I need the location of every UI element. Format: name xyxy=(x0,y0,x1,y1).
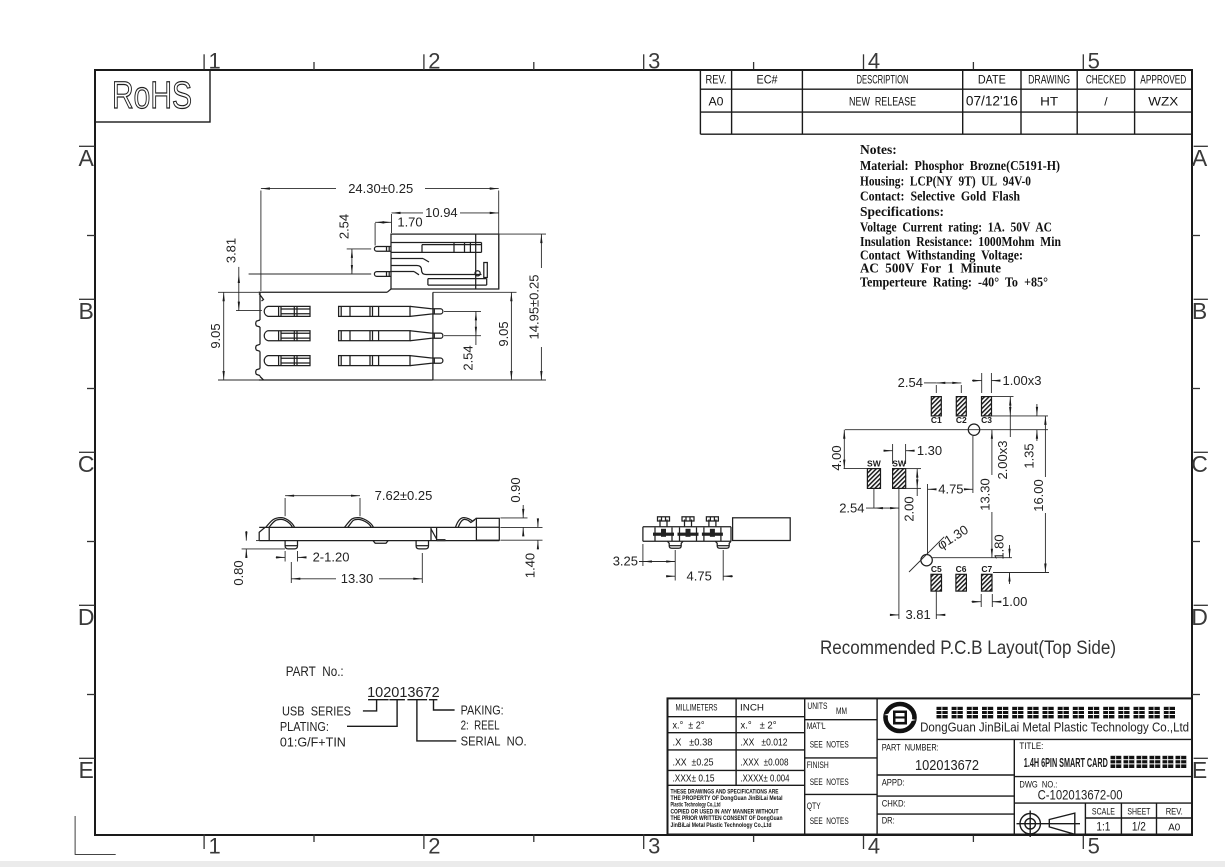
svg-text:C7: C7 xyxy=(981,564,992,574)
svg-text:SEE NOTES: SEE NOTES xyxy=(810,740,849,751)
svg-text:REV.: REV. xyxy=(706,75,727,87)
svg-text:Material: Phosphor Brozne(C5: Material: Phosphor Brozne(C5191-H) xyxy=(860,158,1060,173)
svg-text:SERIAL NO.: SERIAL NO. xyxy=(461,734,527,749)
svg-text:x.° ± 2°: x.° ± 2° xyxy=(673,720,705,732)
svg-text:4.75: 4.75 xyxy=(938,482,963,497)
svg-text:WZX: WZX xyxy=(1148,97,1178,109)
svg-text:3.25: 3.25 xyxy=(613,554,638,569)
svg-text:13.30: 13.30 xyxy=(341,571,374,586)
svg-text:102013672: 102013672 xyxy=(367,685,440,701)
svg-text:1.70: 1.70 xyxy=(397,215,422,230)
svg-text:Notes:: Notes: xyxy=(860,142,897,157)
svg-text:2-1.20: 2-1.20 xyxy=(313,550,350,565)
svg-text:INCH: INCH xyxy=(740,703,764,714)
svg-text:E: E xyxy=(1192,757,1207,783)
svg-text:REV.: REV. xyxy=(1166,806,1183,817)
svg-text:2.54: 2.54 xyxy=(460,345,475,370)
svg-text:C1: C1 xyxy=(931,415,942,425)
svg-text:1.30: 1.30 xyxy=(917,443,942,458)
svg-text:2.54: 2.54 xyxy=(898,375,923,390)
svg-text:MAT’L: MAT’L xyxy=(807,721,826,732)
svg-text:QTY: QTY xyxy=(807,801,821,812)
svg-text:1.00: 1.00 xyxy=(1002,594,1027,609)
svg-text:SCALE: SCALE xyxy=(1092,806,1115,817)
svg-text:AC 500V For 1 Minute: AC 500V For 1 Minute xyxy=(860,261,1001,276)
svg-text:C3: C3 xyxy=(981,415,992,425)
svg-text:CHKD:: CHKD: xyxy=(882,799,906,810)
svg-text:NEW RELEASE: NEW RELEASE xyxy=(849,95,916,109)
svg-text:0.90: 0.90 xyxy=(508,477,523,502)
svg-text:FINISH: FINISH xyxy=(807,760,829,771)
svg-text:.XXX ±0.008: .XXX ±0.008 xyxy=(741,757,789,769)
svg-text:0.80: 0.80 xyxy=(231,560,246,585)
svg-text:Contact: Selective Gold Fla: Contact: Selective Gold Flash xyxy=(860,189,1020,204)
svg-text:16.00: 16.00 xyxy=(1031,479,1046,512)
svg-text:SW: SW xyxy=(892,458,907,468)
svg-text:.XXXX± 0.004: .XXXX± 0.004 xyxy=(741,773,790,785)
svg-text:1.40: 1.40 xyxy=(523,553,538,578)
svg-text:Voltage Current rating: 1A.: Voltage Current rating: 1A. 50V AC xyxy=(860,220,1052,235)
svg-text:A0: A0 xyxy=(709,97,724,109)
svg-text:A: A xyxy=(1192,145,1208,171)
svg-text:Housing: LCP(NY 9T) UL 94V: Housing: LCP(NY 9T) UL 94V-0 xyxy=(860,174,1031,189)
svg-text:PLATING:: PLATING: xyxy=(280,719,329,734)
svg-text:JinBiLai Metal Plastic Technol: JinBiLai Metal Plastic Technology Co.,Lt… xyxy=(671,822,772,829)
svg-text:Temperteure Rating: -40° To: Temperteure Rating: -40° To +85° xyxy=(860,275,1048,290)
svg-text:DESCRIPTION: DESCRIPTION xyxy=(857,75,909,87)
svg-text:CHECKED: CHECKED xyxy=(1086,75,1126,87)
svg-text:3: 3 xyxy=(648,49,660,74)
svg-text:1/2: 1/2 xyxy=(1132,822,1146,834)
svg-text:5: 5 xyxy=(1088,834,1100,859)
svg-text:3: 3 xyxy=(648,834,660,859)
svg-text:4.00: 4.00 xyxy=(829,445,844,470)
svg-text:4: 4 xyxy=(868,834,880,859)
svg-text:SEE NOTES: SEE NOTES xyxy=(810,816,849,827)
svg-text:10.94: 10.94 xyxy=(425,205,458,220)
svg-text:13.30: 13.30 xyxy=(977,478,992,511)
svg-text:HT: HT xyxy=(1040,97,1058,109)
svg-text:PAKING:: PAKING: xyxy=(461,703,504,718)
svg-text:B: B xyxy=(1192,298,1207,324)
svg-text:APPROVED: APPROVED xyxy=(1140,75,1186,87)
svg-text:07/12'16: 07/12'16 xyxy=(966,94,1018,109)
svg-text:9.05: 9.05 xyxy=(496,321,511,346)
svg-text:3.81: 3.81 xyxy=(905,607,930,622)
svg-text:14.95±0.25: 14.95±0.25 xyxy=(526,275,541,340)
svg-text:B: B xyxy=(79,298,94,324)
svg-text:C5: C5 xyxy=(931,564,942,574)
svg-text:1.4H 6PIN SMART CARD: 1.4H 6PIN SMART CARD xyxy=(1024,756,1108,770)
svg-text:102013672: 102013672 xyxy=(915,758,979,774)
svg-text:A: A xyxy=(79,145,95,171)
svg-text:2: REEL: 2: REEL xyxy=(461,718,500,733)
svg-text:PART NUMBER:: PART NUMBER: xyxy=(882,743,939,754)
svg-text:C6: C6 xyxy=(956,564,967,574)
svg-text:D: D xyxy=(1191,604,1208,630)
svg-text:2.00: 2.00 xyxy=(902,496,917,521)
svg-text:RoHS: RoHS xyxy=(112,75,192,117)
svg-text:1.00x3: 1.00x3 xyxy=(1002,373,1041,388)
svg-text:.XXX± 0.15: .XXX± 0.15 xyxy=(673,773,715,785)
svg-text:Specifications:: Specifications: xyxy=(860,204,944,219)
svg-text:2: 2 xyxy=(428,49,440,74)
svg-text:2.54: 2.54 xyxy=(839,500,864,515)
svg-text:APPD:: APPD: xyxy=(882,778,905,789)
svg-text:C: C xyxy=(1191,451,1208,477)
svg-text:2: 2 xyxy=(428,834,440,859)
svg-text:DR:: DR: xyxy=(882,816,895,827)
svg-text:9.05: 9.05 xyxy=(208,323,223,348)
svg-text:C2: C2 xyxy=(956,415,967,425)
svg-text:.XX ±0.012: .XX ±0.012 xyxy=(741,737,788,749)
svg-text:.X ±0.38: .X ±0.38 xyxy=(673,737,713,749)
svg-text:TITLE:: TITLE: xyxy=(1019,741,1043,752)
svg-text:x.° ± 2°: x.° ± 2° xyxy=(741,720,777,732)
svg-text:PART No.:: PART No.: xyxy=(286,664,344,679)
svg-text:C: C xyxy=(78,451,95,477)
svg-text:1.80: 1.80 xyxy=(992,534,1007,559)
svg-text:1.35: 1.35 xyxy=(1021,443,1036,468)
svg-text:2.54: 2.54 xyxy=(336,214,351,239)
svg-text:DATE: DATE xyxy=(978,75,1006,87)
svg-text:24.30±0.25: 24.30±0.25 xyxy=(348,181,413,196)
svg-text:MILLIMETERS: MILLIMETERS xyxy=(676,703,718,714)
svg-text:Recommended P.C.B Layout(Top S: Recommended P.C.B Layout(Top Side) xyxy=(820,637,1116,659)
svg-text:2.00x3: 2.00x3 xyxy=(995,440,1010,479)
svg-text:SHEET: SHEET xyxy=(1127,806,1150,817)
svg-text:SW: SW xyxy=(867,458,882,468)
svg-text:1:1: 1:1 xyxy=(1096,822,1110,834)
svg-text:E: E xyxy=(79,757,94,783)
svg-text:MM: MM xyxy=(836,706,847,717)
svg-text:.XX ±0.25: .XX ±0.25 xyxy=(673,757,714,769)
svg-text:EC#: EC# xyxy=(757,75,779,87)
svg-text:SEE NOTES: SEE NOTES xyxy=(810,777,849,788)
svg-text:01:G/F+TIN: 01:G/F+TIN xyxy=(280,735,346,750)
svg-text:D: D xyxy=(78,604,95,630)
svg-text:A0: A0 xyxy=(1168,823,1180,834)
svg-text:7.62±0.25: 7.62±0.25 xyxy=(375,488,433,503)
svg-text:3.81: 3.81 xyxy=(223,238,238,263)
svg-text:USB SERIES: USB SERIES xyxy=(282,704,351,719)
svg-text:UNITS: UNITS xyxy=(807,701,827,712)
svg-text:C-102013672-00: C-102013672-00 xyxy=(1038,787,1123,803)
svg-text:4.75: 4.75 xyxy=(687,568,712,583)
svg-text:1: 1 xyxy=(208,834,220,859)
svg-text:DongGuan JinBiLai Metal Plasti: DongGuan JinBiLai Metal Plastic Technolo… xyxy=(920,720,1189,735)
svg-text:DRAWING: DRAWING xyxy=(1028,75,1070,87)
